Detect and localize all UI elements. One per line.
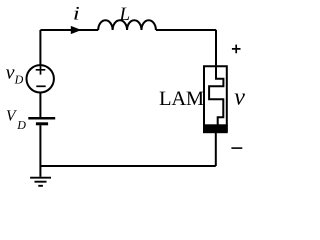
wire top rail right segment xyxy=(156,29,216,31)
arrow current i xyxy=(71,26,82,34)
battery VD long plate xyxy=(28,117,55,120)
memristor U1 box xyxy=(204,66,227,132)
wire top rail left segment xyxy=(40,29,98,31)
ground bar 1 xyxy=(30,177,51,179)
source minus sign xyxy=(36,85,45,87)
memristor meander xyxy=(209,30,223,125)
svg-text:V: V xyxy=(6,107,17,124)
svg-text:D: D xyxy=(14,73,24,87)
wire circle to battery xyxy=(39,93,41,118)
source vD circle xyxy=(27,65,54,92)
wire right vertical xyxy=(215,30,217,66)
svg-text:i: i xyxy=(73,3,80,24)
svg-text:v: v xyxy=(234,85,245,111)
minus terminal xyxy=(231,147,242,149)
svg-text:LAM: LAM xyxy=(159,88,204,110)
svg-text:D: D xyxy=(16,118,26,132)
ground stub xyxy=(39,166,41,177)
source plus sign xyxy=(36,65,46,74)
wire bottom rail xyxy=(40,165,215,167)
ground bar 3 xyxy=(38,185,43,187)
wire battery to bottom rail xyxy=(39,125,41,166)
svg-text:L: L xyxy=(119,4,131,25)
ground bar 2 xyxy=(35,181,47,183)
battery VD short plate xyxy=(36,122,48,125)
inductor L xyxy=(98,20,156,30)
wire memristor to bottom rail xyxy=(215,133,217,166)
svg-text:v: v xyxy=(6,62,15,84)
plus terminal xyxy=(232,45,241,54)
memristor polarity bar xyxy=(203,124,228,133)
wire left vertical xyxy=(39,30,41,65)
